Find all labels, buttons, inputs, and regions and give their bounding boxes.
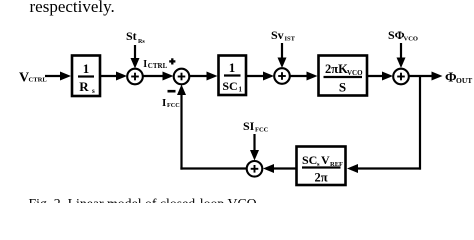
svg-text:CTRL: CTRL bbox=[29, 77, 48, 84]
wire block 2piKvco/S to summer S4 bbox=[367, 72, 393, 81]
svg-text:Fig. 2. Linear model of closed: Fig. 2. Linear model of closed-loop VCO bbox=[29, 196, 257, 203]
svg-text:2π: 2π bbox=[314, 171, 327, 185]
node StRs label bbox=[126, 29, 145, 45]
caption Fig. 2 bbox=[29, 196, 257, 211]
svg-text:1: 1 bbox=[83, 61, 90, 76]
svg-text:IST: IST bbox=[285, 36, 296, 43]
summer S4 bbox=[393, 69, 409, 85]
svg-text:s: s bbox=[92, 87, 95, 95]
svg-text:SΦ: SΦ bbox=[388, 28, 405, 42]
svg-text:I: I bbox=[162, 97, 166, 109]
wire StRs into summer S1 bbox=[131, 45, 140, 69]
node VCTRL label bbox=[19, 71, 47, 86]
wire SIFCC into summer S5 bbox=[250, 134, 259, 161]
wire block SCsVref/2pi to summer S5 bbox=[263, 164, 296, 173]
svg-text:S: S bbox=[339, 80, 346, 95]
wire summer S4 to output PhiOUT bbox=[409, 72, 443, 81]
block 1/Rs bbox=[72, 56, 100, 97]
svg-text:VCO: VCO bbox=[404, 36, 418, 43]
svg-text:St: St bbox=[126, 29, 137, 43]
node SIFCC label bbox=[243, 119, 269, 134]
summer S2 bbox=[174, 69, 190, 85]
svg-text:FCC: FCC bbox=[167, 102, 180, 109]
wire SPhiVCO into summer S4 bbox=[397, 43, 406, 68]
summer S1 bbox=[127, 69, 143, 85]
summer S5 bbox=[247, 161, 263, 177]
node IFCC label bbox=[162, 97, 180, 109]
svg-text:R: R bbox=[79, 79, 89, 94]
wire summer S1 to summer S2 bbox=[143, 72, 174, 81]
node ICTRL label bbox=[143, 59, 167, 70]
svg-text:Rs: Rs bbox=[138, 39, 145, 45]
svg-text:SC: SC bbox=[302, 153, 317, 167]
summer S3 bbox=[274, 68, 290, 84]
block SCsVref/2pi bbox=[297, 147, 346, 186]
svg-text:V: V bbox=[321, 153, 330, 167]
wire feedback to block SCsVref/2pi bbox=[347, 164, 421, 173]
svg-text:1: 1 bbox=[239, 86, 243, 94]
svg-text:respectively.: respectively. bbox=[30, 0, 115, 16]
text respectively. bbox=[30, 0, 115, 16]
svg-text:VCO: VCO bbox=[347, 69, 363, 77]
block 2piKvco/S bbox=[319, 56, 368, 96]
wire block 1/Rs to summer S1 bbox=[100, 72, 127, 81]
svg-text:FCC: FCC bbox=[255, 127, 269, 134]
svg-text:1: 1 bbox=[229, 60, 236, 75]
wire summer S2 to block 1/SC1 bbox=[190, 72, 218, 81]
wire output node down bbox=[419, 76, 421, 170]
minus sign at summer S2 feedback input bbox=[168, 90, 176, 93]
plus sign at summer S2 input bbox=[169, 58, 175, 64]
block 1/SC1 bbox=[219, 56, 247, 96]
wire summer S5 left and up to summer S2 bbox=[177, 85, 247, 170]
node PhiOUT label bbox=[445, 71, 472, 86]
svg-text:2πK: 2πK bbox=[325, 62, 348, 76]
node SvIST label bbox=[271, 28, 296, 43]
wire summer S3 to block 2piKvco/S bbox=[290, 72, 318, 81]
wire VCTRL to block 1/Rs bbox=[45, 72, 71, 81]
svg-text:OUT: OUT bbox=[456, 76, 472, 85]
svg-text:CTRL: CTRL bbox=[148, 62, 168, 70]
svg-text:SC: SC bbox=[222, 79, 237, 93]
wire SvIST into summer S3 bbox=[278, 43, 287, 68]
svg-text:I: I bbox=[143, 59, 147, 70]
svg-text:SI: SI bbox=[243, 119, 255, 133]
node SPhiVCO label bbox=[388, 28, 418, 43]
svg-text:Sv: Sv bbox=[271, 28, 284, 42]
wire block 1/SC1 to summer S3 bbox=[246, 72, 274, 81]
